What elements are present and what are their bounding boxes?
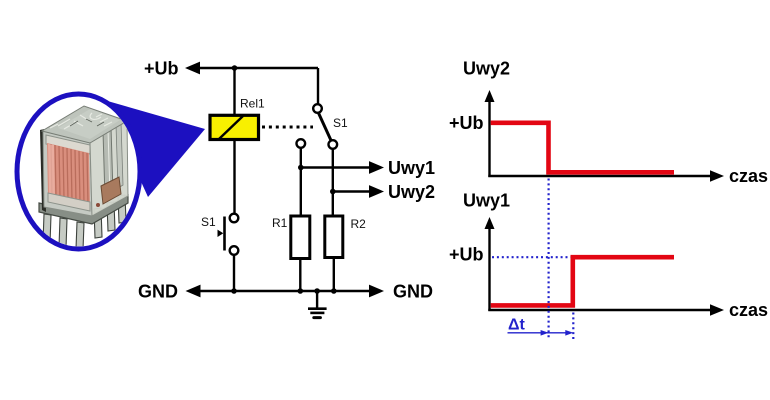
dotted marker t2 xyxy=(572,313,574,341)
arrow +Ub xyxy=(185,62,200,75)
coil bottom flange xyxy=(48,193,90,211)
wire NO contact down to R1 xyxy=(300,148,302,216)
left dark edge xyxy=(40,129,46,212)
svg-text:Uwy2: Uwy2 xyxy=(463,59,510,79)
pins xyxy=(43,195,126,250)
arrow GND right xyxy=(369,285,384,298)
waveform Uwy2 xyxy=(491,123,674,173)
svg-text:+Ub: +Ub xyxy=(449,113,484,133)
switch S1 changeover xyxy=(297,104,338,149)
node junction Uwy1 xyxy=(298,165,304,171)
case right face xyxy=(90,121,128,216)
resistor R1 xyxy=(291,216,310,259)
node junction pushbutton-GND xyxy=(231,288,237,294)
svg-text:GND: GND xyxy=(393,282,433,302)
relay photo callout triangle xyxy=(104,100,205,197)
coil top flange xyxy=(46,135,90,154)
svg-text:S1: S1 xyxy=(333,116,348,130)
svg-text:Uwy1: Uwy1 xyxy=(388,158,435,178)
svg-text:GND: GND xyxy=(138,282,178,302)
node junction Uwy2 xyxy=(330,189,336,195)
wire GND rail xyxy=(192,290,377,292)
svg-text:Uwy2: Uwy2 xyxy=(388,182,435,202)
node junction top rail xyxy=(232,65,238,71)
wire top rail to relay xyxy=(233,68,235,114)
base xyxy=(39,195,128,224)
pushbutton S1 xyxy=(218,214,239,255)
svg-text:Δt: Δt xyxy=(508,317,526,334)
graph Uwy1 axes xyxy=(485,217,725,316)
arrow Uwy2 xyxy=(369,185,384,198)
coil body xyxy=(47,143,90,206)
wire pushbutton to GND xyxy=(233,255,235,292)
node junction R1-GND xyxy=(298,288,304,294)
dimension line delta t xyxy=(508,330,574,336)
waveform Uwy1 xyxy=(491,257,674,305)
resistor R2 xyxy=(325,216,343,258)
relay photo ellipse ring xyxy=(17,94,140,249)
wire top rail to switch S1 xyxy=(317,68,319,105)
svg-text:+Ub: +Ub xyxy=(449,245,484,265)
relay Rel1 xyxy=(210,115,259,139)
svg-text:R2: R2 xyxy=(351,217,367,231)
case top face xyxy=(42,106,127,143)
node junction ground-GND xyxy=(314,288,320,294)
dotted link relay to S1 xyxy=(262,126,313,129)
relay photo xyxy=(39,106,128,250)
wire Uwy1 xyxy=(301,166,370,168)
wire NC contact down to R2 xyxy=(332,149,334,216)
wire R1 to GND xyxy=(299,259,301,292)
svg-text:czas: czas xyxy=(729,166,768,186)
svg-text:S1: S1 xyxy=(201,215,216,229)
contact block xyxy=(101,177,121,204)
graph Uwy2 axes xyxy=(485,90,725,182)
wire relay to pushbutton xyxy=(233,140,235,214)
arrow GND left xyxy=(186,285,201,298)
svg-text:R1: R1 xyxy=(272,216,288,230)
svg-text:+Ub: +Ub xyxy=(144,59,179,79)
dotted level +Ub xyxy=(492,256,571,258)
svg-text:czas: czas xyxy=(729,300,768,320)
wire Uwy2 xyxy=(333,190,370,192)
wire top rail xyxy=(190,67,318,69)
arrow Uwy1 xyxy=(369,161,384,174)
armature strip xyxy=(103,127,113,198)
dotted marker t1 xyxy=(547,179,549,341)
svg-text:Rel1: Rel1 xyxy=(240,97,265,111)
svg-text:Uwy1: Uwy1 xyxy=(463,191,510,211)
node junction R2-GND xyxy=(331,288,337,294)
ground xyxy=(308,291,327,318)
wire R2 to GND xyxy=(333,258,335,292)
case left face xyxy=(43,130,92,216)
